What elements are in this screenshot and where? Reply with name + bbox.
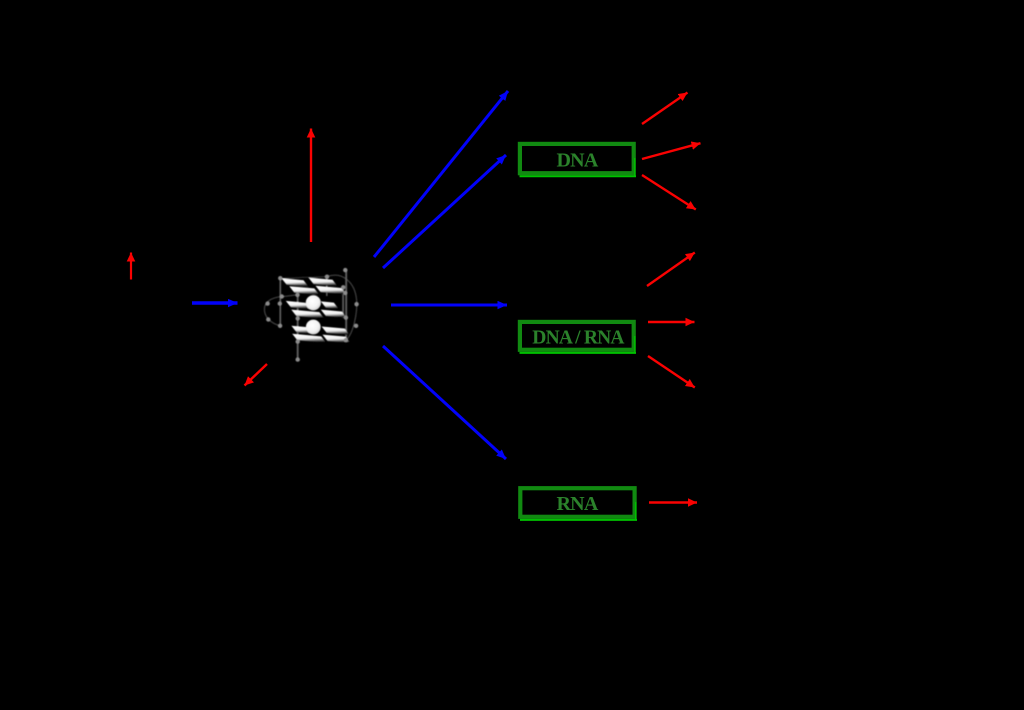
- red fan from DNA: middle: [642, 143, 701, 159]
- rod left: [279, 278, 281, 326]
- svg-text:DNA: DNA: [557, 150, 599, 172]
- sphere ion 2: [306, 320, 321, 335]
- box DNA: [520, 144, 637, 176]
- top back edge: [280, 277, 327, 279]
- loop curve right: [327, 275, 357, 340]
- red arrow down-left from structure: [245, 364, 268, 386]
- rod right front: [345, 270, 347, 340]
- rod right back: [342, 287, 344, 318]
- sphere ion 1: [306, 295, 321, 310]
- red fan from DNA/RNA: bottom: [648, 356, 695, 388]
- red arrow from RNA: [649, 501, 697, 503]
- quadruplex structure: [264, 268, 358, 362]
- quartet level 1 row 1 planks: [282, 278, 309, 287]
- blue arrow to RNA box: [383, 346, 506, 459]
- red fan from DNA/RNA: middle: [648, 321, 695, 323]
- red fan from DNA: bottom: [642, 175, 696, 210]
- quartet level 1 row 2 planks: [289, 286, 319, 295]
- blue arrow to DNA top: [374, 91, 508, 257]
- blue arrow to DNA/RNA box: [391, 304, 507, 307]
- quartet level 2 row 2 planks: [291, 310, 324, 319]
- red fan from DNA: top: [642, 93, 688, 125]
- box DNA / RNA: [520, 322, 637, 353]
- quartet level 3 row 1 planks: [291, 326, 316, 334]
- red arrow small left (up): [130, 253, 132, 280]
- red arrow long vertical (up): [310, 129, 312, 243]
- red fan from DNA/RNA: top: [647, 253, 695, 287]
- rod mid: [297, 294, 299, 359]
- rod top short: [326, 278, 328, 297]
- blue arrow left into structure: [192, 301, 238, 304]
- node dots: [265, 268, 358, 362]
- box RNA: [520, 488, 637, 520]
- quartet level 3 row 2 planks: [292, 334, 326, 343]
- svg-text:DNA / RNA: DNA / RNA: [532, 328, 624, 349]
- svg-text:RNA: RNA: [557, 493, 599, 515]
- quartet level 2 row 1 planks: [286, 301, 311, 309]
- loop curve mid-left: [282, 295, 298, 297]
- loop curve left: [264, 297, 282, 326]
- blue arrow to DNA box: [383, 155, 506, 268]
